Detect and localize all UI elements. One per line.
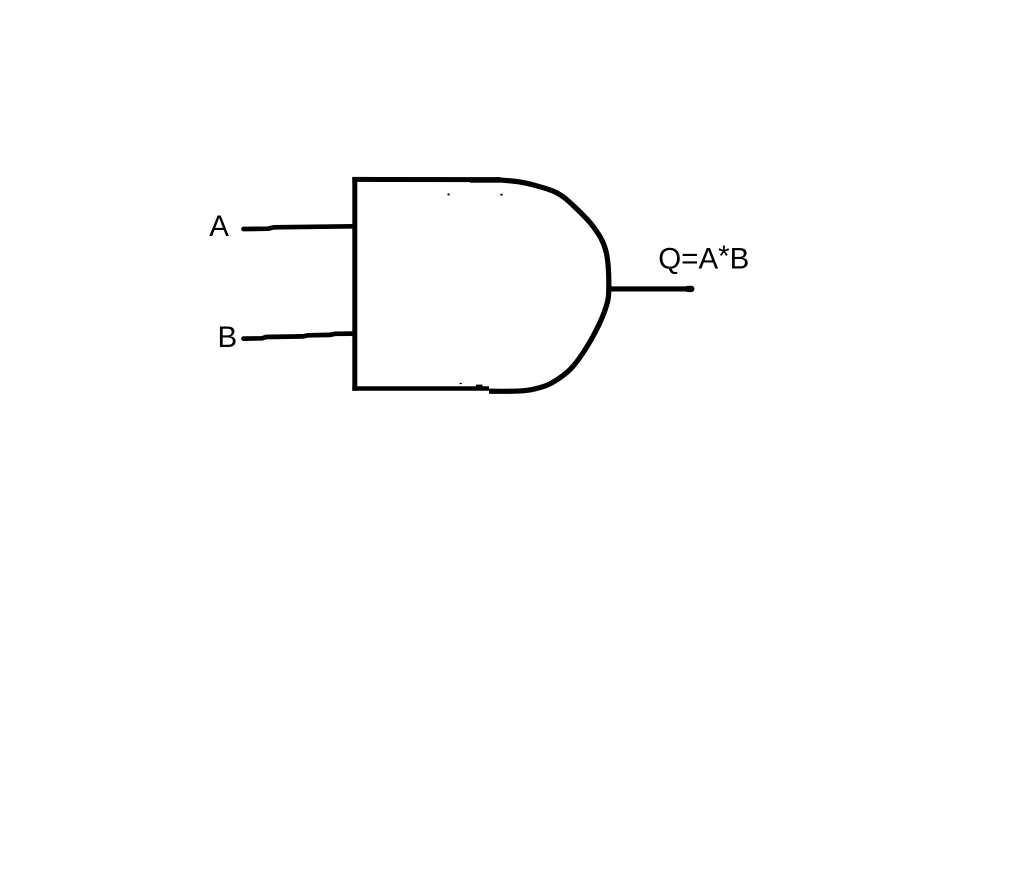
AND gate body (left vertical bar) [352, 177, 357, 391]
AND gate body (top horizontal line) [352, 177, 500, 182]
wire input B [244, 334, 353, 339]
wire output Q [608, 286, 692, 291]
bump on bottom line [476, 385, 483, 388]
stray dot 2 [500, 194, 502, 196]
wire input A [244, 226, 353, 229]
stray dot 3 [460, 383, 462, 384]
AND gate body (freehand D curve) [489, 180, 609, 392]
AND gate body (bottom horizontal line) [352, 386, 489, 390]
stray dot 1 [448, 194, 450, 196]
svg-text:B: B [218, 321, 238, 354]
svg-text:Q=A*B: Q=A*B [658, 240, 749, 276]
svg-text:A: A [209, 210, 229, 243]
top line slight sag [470, 181, 500, 182]
